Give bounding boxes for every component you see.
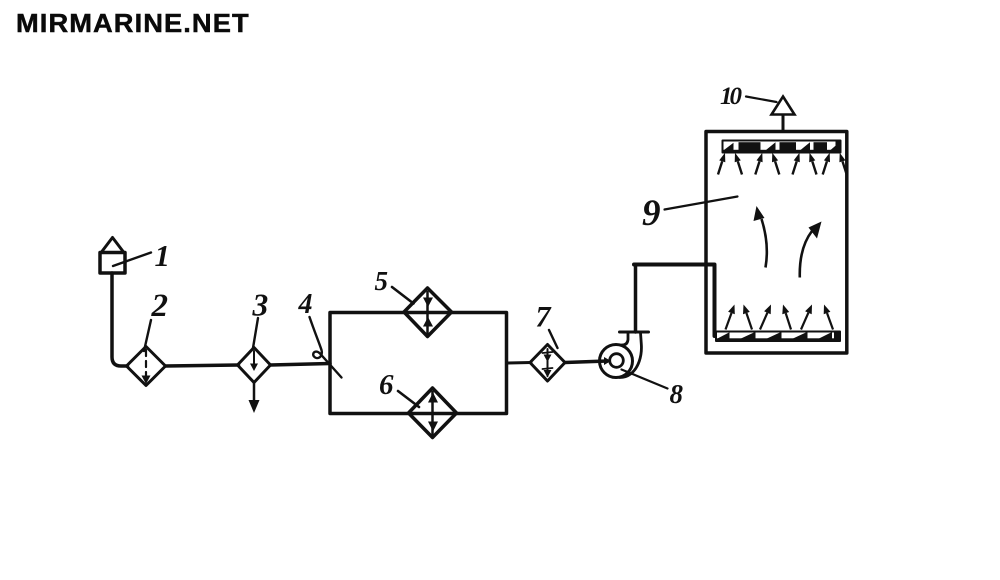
svg-text:6: 6 xyxy=(379,369,394,401)
svg-text:7: 7 xyxy=(536,301,552,334)
svg-text:3: 3 xyxy=(252,288,269,323)
svg-text:0: 0 xyxy=(730,83,743,110)
svg-text:8: 8 xyxy=(670,379,684,409)
svg-text:5: 5 xyxy=(375,266,389,296)
svg-text:1: 1 xyxy=(155,238,171,273)
svg-text:4: 4 xyxy=(298,289,313,320)
svg-text:9: 9 xyxy=(642,193,661,234)
svg-text:2: 2 xyxy=(151,288,169,324)
